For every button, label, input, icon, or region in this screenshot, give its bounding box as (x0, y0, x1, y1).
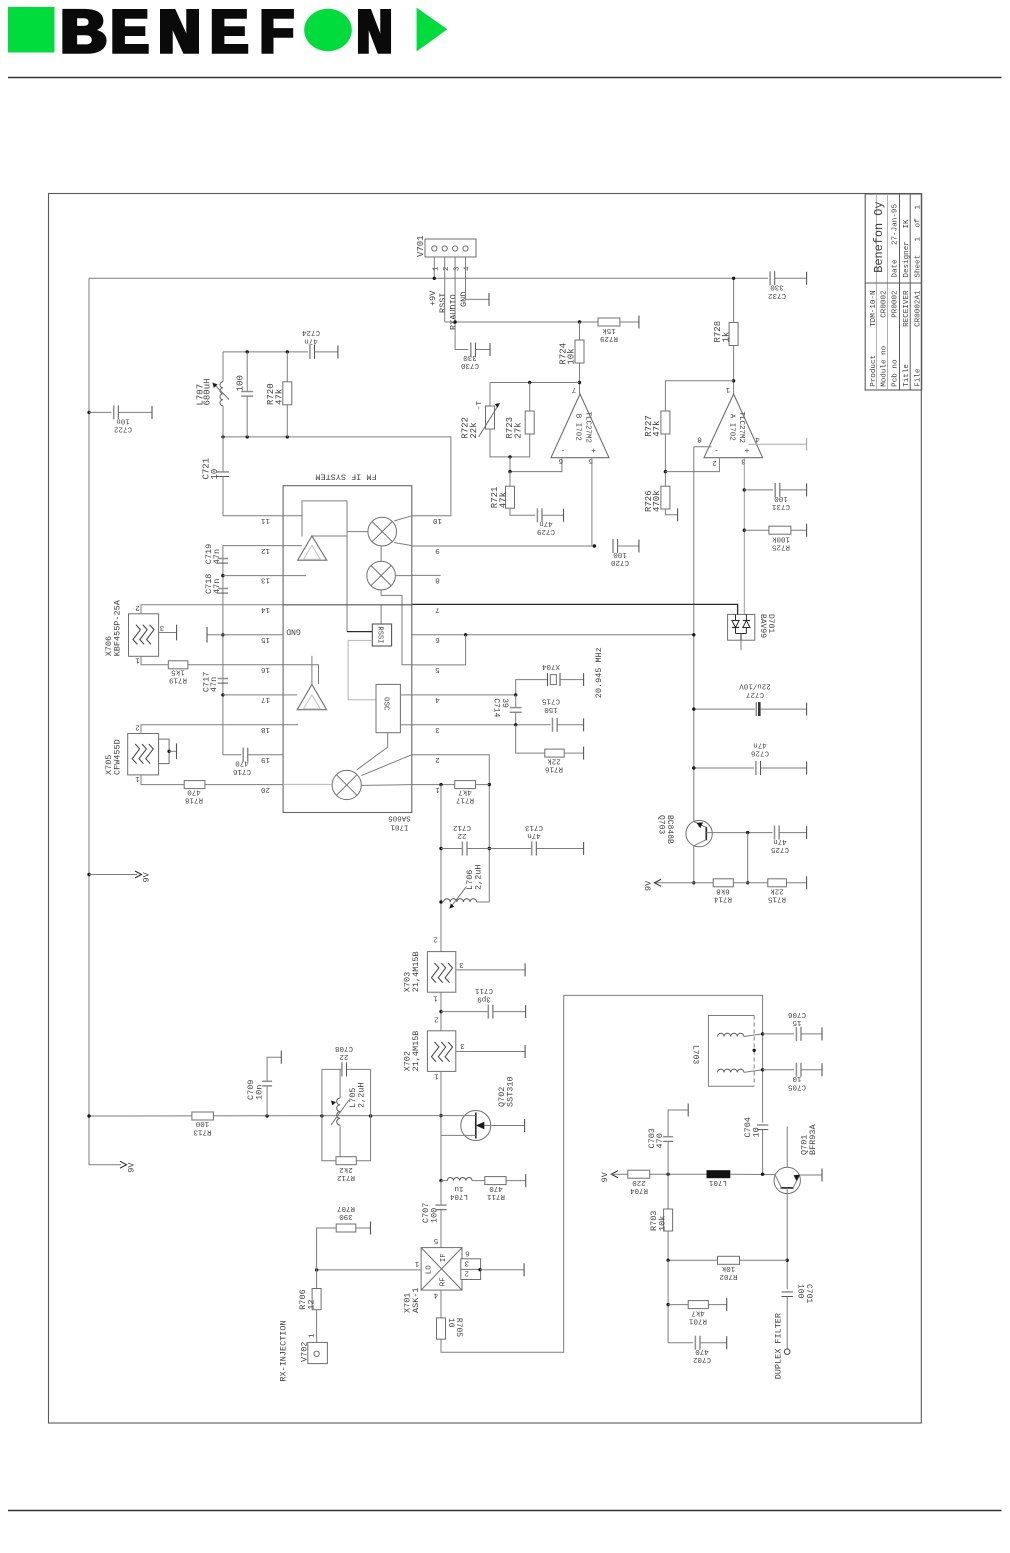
svg-text:100: 100 (613, 550, 627, 558)
svg-text:C731: C731 (772, 502, 791, 510)
wire op-amp B pin5 (591, 458, 593, 546)
svg-text:RF: RF (440, 1277, 448, 1286)
wire mixer1 to pin9 (394, 543, 412, 546)
svg-text:R711: R711 (487, 1192, 506, 1200)
terminal X704 (583, 673, 585, 686)
wire long vertical net pin8 (693, 447, 695, 822)
wire base node down (746, 833, 749, 885)
wire Q701 right stub (800, 1174, 823, 1176)
resistor R718 (184, 781, 205, 789)
svg-text:2: 2 (443, 266, 451, 271)
capacitor C725 (775, 826, 780, 840)
svg-text:N: N (157, 0, 203, 72)
svg-text:2: 2 (433, 935, 438, 943)
svg-text:100: 100 (429, 1208, 439, 1223)
svg-text:Designer: Designer (903, 241, 911, 277)
drawing frame (49, 194, 922, 1424)
svg-text:C722: C722 (114, 425, 132, 433)
pin 2 label X703 (433, 935, 438, 943)
pin 1 label V702 (309, 1333, 317, 1338)
op-amp A input signs (714, 445, 749, 455)
label D701 BAV99 (758, 614, 775, 638)
label R712 2k2 (337, 1165, 355, 1181)
capacitor C709 (262, 1057, 281, 1116)
label C711 3p9 (475, 986, 494, 1002)
svg-text:IF: IF (440, 1253, 448, 1262)
svg-text:13: 13 (261, 576, 271, 584)
capacitor C712 (441, 842, 489, 856)
svg-text:Sheet: Sheet (914, 255, 922, 278)
wire R729 lead (620, 321, 639, 323)
capacitor C708 (342, 1062, 347, 1076)
capacitor C721 (217, 437, 229, 516)
resistor R716 (545, 749, 564, 757)
terminal X703 pin3 (524, 963, 526, 976)
svg-text:X704: X704 (542, 662, 561, 670)
svg-text:IK: IK (903, 219, 911, 229)
op-amp I702 A (704, 394, 763, 458)
pin 1 label X706 (135, 656, 140, 664)
wire C725 lead (779, 832, 807, 834)
wire pin10 loop (221, 435, 451, 516)
crystal X704 (516, 673, 584, 695)
wire R704 to L701 (650, 1173, 707, 1176)
inductor L705 variable (331, 1069, 349, 1160)
wire R701 lead (708, 1304, 726, 1306)
svg-text:L703: L703 (691, 1045, 700, 1064)
svg-text:of: of (914, 218, 922, 228)
label C703 470 (647, 1128, 665, 1148)
wire X705 pin3 stub (169, 750, 176, 752)
wire mixer2 to pin5 path (381, 590, 412, 665)
resistor R715 (768, 879, 787, 887)
block right pin numbers 10-1 (433, 516, 443, 793)
terminal C713 (583, 842, 585, 855)
svg-text:12: 12 (306, 1299, 316, 1309)
mixer circle 1 (368, 517, 397, 546)
wire R707 branch (317, 1228, 337, 1270)
bottom rule (8, 1510, 1002, 1512)
capacitor C717 (218, 679, 228, 684)
svg-text:RSSI: RSSI (376, 627, 384, 644)
capacitor C705 (796, 1063, 801, 1077)
label L703 (691, 1045, 700, 1064)
capacitor C727 electrolytic (756, 702, 759, 716)
svg-text:9V: 9V (126, 1162, 136, 1173)
svg-text:47k: 47k (652, 421, 662, 437)
label FM IF SYSTEM (315, 472, 376, 482)
pin 1 label X701 (414, 1259, 419, 1267)
svg-text:C716: C716 (233, 767, 252, 775)
transistor Q702 SST310 JFET (441, 1111, 525, 1141)
svg-text:C705: C705 (788, 1082, 807, 1090)
svg-text:Product: Product (870, 355, 878, 387)
terminal C731 (806, 483, 808, 496)
svg-text:CR0002: CR0002 (880, 290, 888, 318)
svg-text:21,4M15B: 21,4M15B (411, 951, 421, 992)
label R722 22k (461, 417, 479, 439)
wire L703 right verticals (761, 1032, 764, 1123)
wire 9V branch (89, 874, 137, 876)
wire to pin6 (508, 457, 562, 473)
terminal C729 (563, 509, 565, 522)
pin 1 label (725, 385, 730, 393)
svg-text:4: 4 (464, 266, 472, 271)
wire row pin8 stub (412, 574, 441, 576)
svg-text:3: 3 (741, 457, 746, 465)
svg-text:RX-INJECTION: RX-INJECTION (279, 1320, 289, 1381)
svg-text:R719: R719 (169, 676, 187, 684)
terminal R711 (525, 1174, 527, 1187)
label C717 47n (202, 672, 220, 692)
capacitor C722 stub (87, 405, 152, 419)
svg-text:22k: 22k (469, 422, 479, 438)
svg-text:-: - (714, 445, 719, 454)
svg-text:4k7: 4k7 (458, 788, 472, 796)
svg-text:R729: R729 (600, 334, 618, 342)
label L705 2,2uH (348, 1082, 366, 1108)
wire pin15 GND stub (207, 634, 283, 636)
terminal Q702 drain (524, 1119, 526, 1132)
wire L701 to Q701 base (730, 1173, 775, 1176)
resistor R725 (769, 526, 791, 534)
label Q701 BFR93A (800, 1123, 818, 1155)
pin 4 label X701 (433, 1291, 438, 1299)
label R714 6k8 (714, 887, 733, 903)
wire D701 bottom stub (740, 640, 742, 650)
terminal X701 side (523, 1263, 525, 1276)
svg-text:330: 330 (770, 283, 784, 291)
wire node to pin2 (665, 458, 719, 471)
svg-text:15: 15 (261, 635, 271, 643)
capacitor C704 (757, 1125, 768, 1174)
svg-text:17: 17 (261, 695, 270, 703)
wire mixers link (380, 546, 382, 561)
svg-text:A I702: A I702 (728, 414, 736, 441)
mixer circle 2 (367, 561, 396, 590)
capacitor C713 (489, 842, 583, 856)
svg-text:C720: C720 (611, 558, 630, 566)
wire OSC to mixer3 (357, 733, 388, 770)
label C712 22 (453, 823, 471, 839)
inductor L707 variable (213, 352, 230, 437)
terminal C702 (726, 1336, 728, 1349)
wire C731 lead (780, 489, 807, 491)
wire OSC to pin3 (400, 724, 411, 726)
label R701 4k7 (689, 1309, 708, 1325)
label C705 10 (788, 1074, 807, 1090)
svg-text:330: 330 (463, 353, 477, 361)
svg-text:1k5: 1k5 (171, 668, 185, 676)
wire R719 to pin16 (188, 664, 283, 666)
svg-text:1: 1 (434, 1072, 439, 1080)
svg-text:5: 5 (588, 456, 593, 464)
label R715 22k (768, 887, 787, 903)
svg-text:TDM-10-N: TDM-10-N (870, 290, 878, 326)
svg-text:RSSI: RSSI (438, 293, 448, 313)
svg-text:TLC27M2: TLC27M2 (583, 412, 591, 444)
wire RSSI dark link left (347, 631, 372, 633)
wire L704 to R711 (472, 1180, 485, 1182)
svg-text:B I702: B I702 (574, 414, 582, 441)
X705 side box (159, 739, 171, 764)
resistor R707 (336, 1224, 356, 1232)
resistor R726 (661, 486, 670, 509)
pin 3 label (741, 457, 746, 465)
svg-text:-: - (560, 445, 565, 454)
svg-text:10n: 10n (255, 1085, 265, 1100)
wire C724 lead (315, 351, 338, 353)
wire R721 to C729 (510, 508, 535, 515)
capacitor C730 (471, 343, 476, 357)
svg-text:47k: 47k (274, 389, 284, 405)
capacitor C716 (223, 748, 284, 762)
wire Q701 collector stub (786, 1127, 788, 1168)
wire mixer1 to pin10 (394, 516, 412, 521)
terminal X702 pin3 (524, 1045, 526, 1058)
svg-text:V701: V701 (416, 235, 426, 257)
svg-text:1: 1 (914, 205, 922, 210)
svg-text:Title: Title (903, 364, 911, 387)
svg-text:R718: R718 (185, 796, 203, 804)
label Q703 BC848B (657, 815, 674, 844)
wire V701 pin4 GND (466, 257, 490, 299)
label R725 100k (772, 535, 791, 551)
svg-text:22: 22 (339, 1052, 348, 1060)
wire X706 pin3 stub (159, 632, 177, 634)
pin 1 label X702 (434, 1072, 439, 1080)
terminal C725 (806, 826, 808, 839)
terminal R715 (806, 876, 808, 889)
svg-text:1k: 1k (721, 332, 731, 343)
wire C715 lead (557, 724, 584, 726)
wire C730 lead (475, 349, 490, 351)
label R704 220 (630, 1178, 649, 1194)
svg-text:-T: -T (476, 400, 484, 410)
label op-amp A texts (728, 412, 746, 444)
svg-text:6: 6 (435, 635, 440, 643)
svg-text:R704: R704 (630, 1186, 649, 1194)
pin 3 label X705 (161, 742, 166, 750)
wire pin2 row down (412, 755, 491, 902)
terminal R707 (370, 1222, 372, 1235)
svg-text:BAV99: BAV99 (758, 614, 767, 638)
label C706 15 (788, 1010, 807, 1026)
title block row Pcb no PR0002 Date (892, 204, 900, 387)
X701 side box pins 2 3 (461, 1248, 481, 1279)
net labels +9V RSSI RXAUDIO GND (428, 290, 469, 330)
tank L705 loop (322, 1069, 371, 1160)
svg-text:390: 390 (339, 1212, 353, 1220)
label R713 100 (193, 1119, 212, 1135)
svg-text:9V: 9V (643, 880, 653, 891)
diode D701 BAV99 (728, 614, 755, 640)
svg-text:2: 2 (464, 1268, 469, 1276)
capacitor C701 (782, 1292, 793, 1349)
svg-text:C725: C725 (771, 845, 790, 853)
label V701 (416, 235, 426, 257)
label X701 ASK-1 (403, 1287, 421, 1313)
terminal R716 (583, 747, 585, 760)
wire R727 R726 node (664, 434, 667, 486)
svg-text:2k2: 2k2 (339, 1165, 353, 1173)
resistor R720 with leads (283, 352, 292, 437)
svg-text:C715: C715 (542, 697, 561, 705)
wire V701 pin2 RSSI (444, 257, 446, 322)
Benefon logo text BENEF N (59, 0, 394, 72)
wire R702 row (666, 1259, 717, 1262)
9V supply arrow mid (643, 879, 661, 891)
svg-text:C714: C714 (492, 698, 501, 717)
label C707 100 (421, 1203, 439, 1223)
label R706 12 (298, 1289, 316, 1309)
pin 1 label X705 (135, 774, 140, 782)
svg-text:47n: 47n (539, 519, 553, 527)
terminal C711 (525, 1005, 527, 1018)
wire C732 lead (775, 277, 807, 279)
svg-text:4k7: 4k7 (691, 1309, 705, 1317)
label X704 (542, 662, 561, 670)
wire X706 pin1 to R719 (141, 656, 168, 665)
resistor R727 (661, 411, 670, 434)
label LO IF RF (426, 1253, 449, 1286)
svg-text:10k: 10k (567, 348, 577, 364)
svg-text:3: 3 (435, 725, 440, 733)
svg-text:47n: 47n (304, 336, 318, 344)
pin 5 label (588, 456, 593, 464)
resistor R723 (525, 411, 534, 434)
terminal C722 (151, 406, 153, 419)
inductor L704 (447, 1178, 472, 1181)
filter X705 CFW455D (128, 734, 159, 775)
wire pin11 row with C721 (223, 515, 303, 517)
wire pin20 light row inside (283, 783, 332, 785)
RSSI box inside block (372, 624, 391, 646)
svg-text:6k8: 6k8 (716, 887, 730, 895)
label C722 10n (114, 417, 132, 433)
svg-text:C730: C730 (461, 361, 480, 369)
svg-text:18: 18 (261, 725, 270, 733)
resistor R706 (312, 1289, 321, 1310)
svg-text:3: 3 (159, 623, 164, 631)
svg-text:GND: GND (286, 627, 301, 636)
wire C726 row (692, 766, 754, 769)
svg-text:5: 5 (433, 1236, 438, 1244)
svg-text:RECEIVER: RECEIVER (903, 290, 911, 327)
label R702 10k (719, 1264, 737, 1280)
wire IF out dark row pin7 (412, 604, 738, 614)
capacitor C714 (510, 695, 522, 725)
label C701 100 (796, 1284, 813, 1303)
terminal R726 (677, 508, 679, 521)
wire R721 top lead (509, 472, 511, 487)
svg-text:R714: R714 (714, 895, 733, 903)
svg-text:10: 10 (433, 516, 443, 524)
pin 3 label X703 (459, 960, 464, 968)
resistor R713 (192, 1112, 214, 1120)
svg-text:470: 470 (235, 759, 249, 767)
label L706 2,2uH (465, 864, 483, 890)
svg-text:LO: LO (426, 1265, 434, 1275)
terminal R725 (806, 524, 808, 537)
resistor R728 (729, 323, 738, 346)
svg-text:RXAUDIO: RXAUDIO (449, 294, 459, 330)
inductor L701 ferrite bead (707, 1170, 731, 1178)
label L701 (709, 1178, 728, 1186)
svg-text:1u: 1u (454, 1184, 463, 1192)
svg-text:7: 7 (572, 385, 577, 393)
svg-text:100: 100 (796, 1284, 805, 1299)
svg-text:22k: 22k (770, 887, 784, 895)
label R724 10k (558, 343, 576, 365)
wire RSSI light link (348, 640, 376, 699)
wire R718 to pin20 (205, 784, 283, 786)
wire to R701 row (666, 1260, 669, 1342)
label op-amp B texts (574, 412, 592, 444)
Benefon logo green triangle (417, 8, 448, 52)
resistor R724 (575, 340, 584, 363)
svg-text:470: 470 (187, 788, 201, 796)
svg-text:E: E (109, 0, 150, 72)
label R726 470k (644, 490, 662, 512)
wire R723 top lead (529, 383, 531, 412)
wire R724 to pin7 (578, 363, 581, 394)
svg-text:3: 3 (459, 960, 464, 968)
wire R701 row (668, 1304, 688, 1306)
connector V702 (308, 1342, 328, 1363)
svg-text:27-Jan-95: 27-Jan-95 (892, 204, 900, 245)
label C727 22u/10V (739, 682, 771, 698)
label -T (476, 400, 484, 410)
svg-text:11: 11 (261, 516, 271, 524)
label C714 39 (492, 698, 509, 717)
svg-text:22: 22 (457, 831, 466, 839)
wire L704 row (441, 1180, 447, 1182)
label R705 10 (446, 1318, 463, 1337)
svg-text:2,2uH: 2,2uH (473, 864, 483, 890)
pin 2 label X706 (135, 603, 140, 611)
IC I701 SA605 FM IF SYSTEM block (283, 486, 412, 813)
wire main IF row (87, 1114, 441, 1117)
svg-text:DUPLEX FILTER: DUPLEX FILTER (774, 1313, 784, 1379)
filter X703 21.4M15B (427, 952, 455, 993)
svg-text:47n: 47n (212, 579, 222, 594)
terminal pin4 (806, 438, 808, 451)
wire V701 pin3 RXAUDIO (454, 257, 456, 350)
wire Q703 emitter down (692, 846, 695, 885)
label 20.945 MHz (594, 647, 604, 698)
resistor R703 (664, 1174, 673, 1260)
terminal C703 (687, 1104, 689, 1117)
wire X705 pin2 to pin18 (141, 725, 225, 734)
svg-text:BFR93A: BFR93A (808, 1123, 818, 1155)
block left pin numbers 11-20 (261, 516, 271, 793)
svg-text:+: + (744, 445, 749, 454)
wire X703 pin3 stub (456, 969, 525, 971)
svg-text:100: 100 (236, 375, 246, 391)
svg-text:C727: C727 (746, 690, 764, 698)
svg-text:3: 3 (464, 1258, 469, 1266)
wire R714 R715 (733, 882, 768, 884)
svg-text:R712: R712 (337, 1173, 355, 1181)
wire C727 lead (761, 708, 807, 710)
svg-text:C732: C732 (768, 291, 786, 299)
label C726 47n (751, 741, 770, 757)
Benefon logo green O ellipse (304, 9, 352, 52)
wire IF row inside block (283, 604, 412, 606)
svg-text:C706: C706 (788, 1010, 807, 1018)
svg-text:R702: R702 (719, 1272, 737, 1280)
